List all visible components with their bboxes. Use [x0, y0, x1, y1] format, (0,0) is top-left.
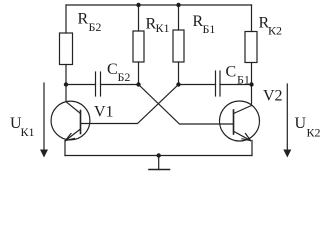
svg-text:К1: К1 — [156, 21, 170, 35]
node B dot — [136, 82, 140, 86]
node A dot — [64, 82, 68, 86]
svg-text:C: C — [226, 64, 237, 81]
wire R_B1 top lead — [178, 5, 180, 30]
capacitor СБ2 — [96, 72, 101, 96]
node C dot — [176, 82, 180, 86]
ground — [149, 156, 170, 170]
transistor V2 — [220, 85, 260, 156]
wire R_K1 top lead — [138, 5, 140, 31]
svg-text:C: C — [107, 61, 118, 78]
wire R_B2 top lead — [65, 5, 67, 33]
node dot top B1 — [176, 3, 180, 7]
resistor RБ2 — [60, 33, 73, 65]
wire node A to C_B2 — [66, 84, 96, 86]
wire R_K2 top lead — [251, 5, 253, 32]
wire cross-coupling node C to V1 base — [81, 85, 179, 124]
wire R_K1 bottom lead — [138, 62, 140, 85]
svg-text:Б2: Б2 — [89, 20, 102, 34]
resistor RБ1 — [173, 30, 184, 62]
transistor V1 — [51, 85, 90, 156]
svg-text:V1: V1 — [94, 104, 114, 121]
wire bottom emitter rail — [65, 155, 252, 157]
svg-text:R: R — [78, 11, 89, 28]
resistor RК2 — [245, 32, 257, 63]
svg-text:К2: К2 — [307, 126, 321, 140]
svg-text:Б2: Б2 — [118, 70, 131, 84]
svg-text:К2: К2 — [268, 24, 282, 38]
wire R_B1 bottom lead — [178, 62, 180, 85]
node D dot — [249, 82, 253, 86]
wire R_K2 bottom lead — [251, 63, 253, 85]
svg-text:V2: V2 — [263, 88, 283, 105]
wire cross-coupling node B to V2 base — [139, 85, 234, 125]
svg-text:Б1: Б1 — [237, 73, 250, 87]
svg-text:К1: К1 — [21, 125, 35, 139]
wire C_B2 to node B — [101, 84, 139, 86]
wire C_B1 to node D — [220, 84, 252, 86]
wire top supply rail — [66, 4, 252, 6]
node dot top K1 — [136, 3, 140, 7]
wire R_B2 bottom lead — [65, 65, 67, 85]
node ground dot — [157, 153, 161, 157]
svg-text:U: U — [295, 115, 307, 132]
wire node C to C_B1 — [179, 84, 216, 86]
resistor RК1 — [133, 31, 144, 62]
svg-text:Б1: Б1 — [203, 22, 216, 36]
capacitor СБ1 — [216, 71, 221, 96]
arrow U_K2 — [283, 84, 291, 158]
arrow U_K1 — [40, 83, 48, 158]
